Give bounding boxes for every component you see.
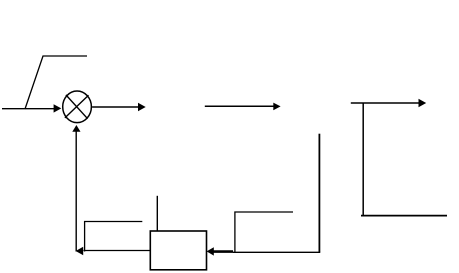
step symbol left — [85, 222, 143, 252]
riser up arrowhead — [72, 125, 80, 132]
wire bottom-right horizontal — [361, 215, 447, 217]
feedback box — [150, 231, 206, 270]
wire from box left to left arrow — [84, 250, 151, 252]
ramp input symbol — [25, 56, 87, 109]
wire riser up to summing junction — [75, 131, 77, 252]
wire feedback horizontal to box — [233, 251, 320, 253]
output arrowhead — [138, 103, 146, 112]
wire middle arrow — [205, 105, 274, 107]
step symbol middle — [235, 212, 293, 252]
summing junction X — [65, 95, 89, 119]
wire input line into summing junction — [2, 108, 55, 110]
wire stub above box — [156, 196, 158, 231]
input arrowhead — [54, 104, 62, 112]
middle arrowhead — [273, 103, 280, 111]
wire right vertical drop — [362, 104, 364, 216]
bold arrow into box right side — [213, 250, 233, 253]
summing junction circle — [63, 91, 92, 123]
wire output of summing junction — [92, 106, 139, 108]
top-right arrowhead — [419, 99, 427, 108]
wire top-right arrow — [351, 102, 420, 104]
wire feedback vertical at x=319 — [318, 134, 320, 253]
left arrowhead into riser — [76, 247, 84, 255]
